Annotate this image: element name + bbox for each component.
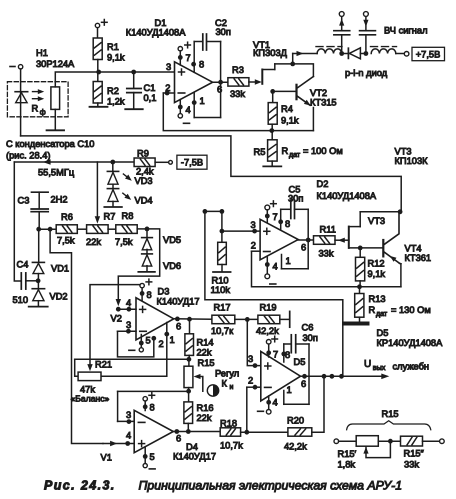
wire balance line R21 to R14 node [75,358,189,360]
svg-text:R4: R4 [281,104,293,114]
wire R7-R8 [108,228,116,230]
inductor L2 with core [371,47,397,54]
svg-text:R14: R14 [197,338,214,348]
label C3 [18,196,30,206]
output wire D1 pin 6 [213,80,228,95]
pin 4 supply terminal D1 [178,100,191,124]
svg-text:42,2k: 42,2k [256,326,279,336]
light arrows of photodiode [33,89,45,101]
svg-text:3: 3 [166,62,171,72]
pin 2 label D1 [165,83,170,93]
svg-text:7: 7 [186,53,191,63]
resistor R19 42,2k [256,303,280,337]
ground under R5 [263,161,281,166]
wire to R7 wiper with arrow [95,162,100,224]
svg-text:30п: 30п [216,27,231,37]
svg-text:+7,5В: +7,5В [416,49,441,59]
pin 4 terminal D2 [265,257,278,284]
svg-text:10,7k: 10,7k [220,441,243,451]
diode VD2 [32,274,44,301]
svg-text:2: 2 [248,376,253,386]
node C1 tap [131,70,136,75]
op-amp D3 К140УД17 [136,298,174,340]
svg-text:7,5k: 7,5k [57,236,75,246]
transistor VT4 КТ361 [383,212,401,287]
svg-text:R8: R8 [122,211,134,221]
node R12/R13 junction [357,281,362,289]
right terminal of R15 detail [423,439,445,444]
svg-text:R18: R18 [220,419,237,429]
svg-text:К140УД17: К140УД17 [157,297,200,307]
transistor VT2 КТ315 [297,77,314,131]
svg-text:22k: 22k [197,348,212,358]
label 2H2 [51,195,68,205]
label 55,5MHz [38,168,75,178]
op-amp D2 К140УД1408А [260,219,298,259]
svg-text:1: 1 [200,96,205,106]
svg-text:VD6: VD6 [163,261,181,271]
svg-text:-7,5В: -7,5В [181,158,203,168]
arrow at VD3 [123,174,131,181]
label C4 [17,260,29,270]
pin 3 label D1 [166,62,171,72]
svg-text:33k: 33k [319,249,334,259]
caption Fig 24.3 [44,479,402,493]
node VD1/VD2/C4 [36,278,41,283]
wire drain up to RF line [292,54,294,64]
svg-text:R: R [32,104,39,114]
resistor R2 1,2k [93,72,125,107]
node VT3 drain / VT4 collector [398,209,403,214]
node diode/L2 junction [364,51,369,56]
svg-text:«Баланс»: «Баланс» [71,394,110,404]
wire D2 pin2 to R12/R13 node [252,251,401,287]
svg-text:R5: R5 [254,147,266,157]
op-amp D5 КР140УД1408А [261,352,301,401]
bar under VD6 [138,266,155,272]
label D4 [173,442,216,462]
label 510 [13,295,29,305]
svg-text:К: К [222,379,228,389]
svg-text:= 100 Ом: = 100 Ом [303,146,343,156]
ground under R10 [213,265,231,273]
svg-text:R17: R17 [214,303,231,313]
pin 5 terminal D4 [143,447,155,469]
label D1 [126,18,186,38]
label D5 at symbol [294,357,306,367]
feedback wire D1 pin2 down and right to R4/R5 node [163,93,313,131]
svg-text:2: 2 [159,339,164,349]
svg-text:R13: R13 [369,294,386,304]
svg-text:К140УД1408А: К140УД1408А [126,28,186,38]
svg-text:VT4: VT4 [405,244,422,254]
label VD4 [135,196,153,206]
node D4 output / R16 [186,429,191,434]
svg-text:10,7к: 10,7к [211,326,234,336]
pin 1 loop D2 [282,240,309,269]
svg-text:4: 4 [273,262,278,272]
pin 8 stub D1 [191,42,204,73]
capacitor C3 2H2 with stub bar [31,192,48,229]
label U out sluzhebn [364,359,429,372]
svg-text:R16: R16 [197,403,214,413]
label R15' 1,8k [338,449,357,470]
svg-text:R1: R1 [107,42,119,52]
wire V2 from R8 node to D3 noninverting input [116,229,160,306]
wire D4 pin3 up to R15 node [117,391,119,421]
svg-text:D5: D5 [294,357,306,367]
node C3/VD1 [36,227,41,232]
svg-text:6: 6 [301,243,306,253]
resistor R14 22k [185,319,214,357]
terminal minus (H1 bias input) [10,65,23,69]
svg-text:2Н2: 2Н2 [51,195,68,205]
wiper of R15 [194,374,203,391]
transistor VT1 КП303Д (JFET) [262,64,292,84]
wire H1 minus terminal down [20,69,22,136]
svg-text:8: 8 [150,403,155,413]
svg-text:1,2k: 1,2k [107,97,125,107]
svg-text:Принципиальная электрическая с: Принципиальная электрическая схема АРУ-1 [139,479,403,493]
label R15 [198,358,215,368]
svg-text:R6: R6 [61,212,73,222]
wire D2 pin 3 [222,229,260,234]
wire D5 pin2 down to R18/R20 node [246,387,248,432]
svg-text:C6: C6 [302,323,314,333]
svg-text:33k: 33k [230,89,245,99]
svg-text:7,5k: 7,5k [115,237,133,247]
svg-text:3: 3 [248,354,253,364]
resistor Rf (plain) [51,87,60,110]
node VT1 drain [290,62,295,67]
pin 2 wire D2 [251,241,260,252]
ground under VD4 [104,201,122,207]
svg-text:вых: вых [373,363,386,372]
svg-text:D2: D2 [317,179,329,189]
wire terminal to R1 [97,28,99,38]
wire R6-R7 [77,228,86,230]
potentiometer R15 (Regul Ki) [184,359,193,387]
label VD1 [51,264,69,274]
resistor R17 10,7k [211,303,235,337]
resistor R1 9,1k [93,38,125,63]
svg-text:R15″: R15″ [404,449,425,459]
inductor L1 with core [316,47,342,54]
wire C5 down to output [307,209,309,240]
svg-text:4: 4 [186,105,191,115]
svg-text:5: 5 [150,452,155,462]
capacitor C1 0,1 [127,72,157,109]
svg-text:U: U [364,359,371,370]
svg-text:VD3: VD3 [135,176,153,186]
capacitor to antenna terminal 2 [360,12,376,54]
svg-text:D1: D1 [155,18,167,28]
svg-text:R3: R3 [232,65,244,75]
svg-text:R2: R2 [107,86,119,96]
arrow at VD4 [123,193,131,200]
pin 3 label D2 [251,220,256,230]
svg-text:510: 510 [13,295,29,305]
svg-text:D3: D3 [158,287,170,297]
AGC feedback wire from D5 output to D2 +input [205,211,343,375]
svg-text:R12: R12 [368,259,385,269]
wiper of R15' to node [363,441,390,457]
resistor R8 7,5k [115,211,137,247]
resistor R16 22k [184,391,214,423]
svg-text:H1: H1 [36,48,48,58]
pin 4 terminal D5 [258,396,278,414]
adjustment symbol (half filled circle) [207,385,218,396]
svg-text:D5: D5 [377,328,389,338]
svg-text:КП303Д: КП303Д [253,48,288,58]
pin 2 stub D3 [151,336,163,349]
wire R20 up to output [312,376,324,432]
svg-text:8: 8 [285,350,290,360]
op-amp D4 К140УД17 [134,410,173,452]
wire C2 down to output node [220,42,222,118]
pin 7 terminal D5 [266,336,278,359]
resistor R20 42,2k [284,416,312,452]
pin 2 wire D1 (inverting input) [163,91,174,96]
wire Rf bottom to ground [54,109,56,129]
svg-text:4: 4 [126,298,131,308]
input wire 55,5MHz with arrow [14,159,134,164]
transistor VT3 КП103К (JFET) [349,212,400,248]
wire R16 to D4 output [187,423,189,431]
svg-text:7: 7 [273,350,278,360]
svg-text:VT3: VT3 [368,216,385,226]
output wire D3 pin6 [174,317,212,332]
wire bus to pin3 and R10 [220,211,225,242]
pin 3 wire D4 [118,410,135,424]
svg-text:V2: V2 [111,314,122,324]
node R4 bottom / R5 top [269,124,274,133]
pin 1 stub D3 [164,332,174,345]
svg-text:VD2: VD2 [50,292,68,302]
label VD5 [163,235,181,245]
label VT1 [253,40,288,58]
node R1/R2 junction [96,70,101,75]
label 47k Balance [71,385,110,404]
pin 8 terminal D3 [140,279,152,300]
svg-text:V1: V1 [101,453,112,463]
svg-text:6: 6 [176,434,181,444]
pin 8 stub D2 [278,209,290,230]
svg-text:0,1: 0,1 [144,93,157,103]
ground under R2 [90,103,108,107]
wire R15 bottom to D4 inverting [118,390,189,392]
svg-text:8: 8 [285,219,290,229]
svg-text:R19: R19 [260,303,277,313]
capacitor C2 30p feedback [194,18,231,50]
capacitor C4 510 [21,273,38,289]
output wire D5 pin6 U out [301,374,390,390]
svg-text:C1: C1 [144,83,156,93]
output wire D2 pin6 [298,238,313,253]
node R15 bottom [186,388,191,394]
pin 3 wire D3 inverting [118,320,137,334]
svg-text:R15′: R15′ [338,449,357,459]
pin 8 terminal D4 [143,393,155,413]
svg-text:VT3: VT3 [395,147,412,157]
label VD6 [163,261,181,271]
label H1 30P124A [36,48,75,69]
potentiometer R21 47k Balance [75,359,101,380]
p-i-n diode [342,48,366,59]
wire R1 to node [97,60,99,73]
label R_f (photo resistor) [32,104,46,117]
label D2 [317,179,377,201]
label VCh signal [384,26,428,36]
ground under Rf [47,129,65,131]
wire VT2 base to node [270,89,296,94]
wire D3 pin3 to pin2 compensation [118,331,154,357]
svg-text:R20: R20 [287,416,304,426]
terminal plus above R1 [95,20,107,28]
resistor R11 33k [314,225,336,259]
label V2 [111,314,122,324]
svg-text:55,5МГц: 55,5МГц [38,168,75,178]
node R14 bottom [187,355,192,361]
resistor R6 7,5k [56,212,77,246]
svg-text:9,1k: 9,1k [107,53,125,63]
wire L2 to +7,5V terminal [396,52,409,57]
ground bar under R13 [344,317,368,323]
svg-text:КТ315: КТ315 [310,98,337,108]
wire Rf top to R1/R2 node [55,72,98,87]
svg-text:ВЧ сигнал: ВЧ сигнал [384,26,428,36]
svg-text:9,1k: 9,1k [281,116,299,126]
svg-text:р-i-n диод: р-i-n диод [345,68,388,78]
svg-text:3: 3 [126,320,131,330]
svg-text:D4: D4 [186,442,198,452]
resistor R7 22k (controlled) [86,212,115,248]
node R18/R20/pin2 [241,430,288,435]
svg-text:R21: R21 [95,360,112,370]
svg-text:33k: 33k [404,460,419,470]
svg-text:КП103К: КП103К [395,156,429,166]
node R20 feedback tap [322,374,327,379]
label VT4 [405,244,432,264]
diode VD1 [32,229,44,273]
wire C3 node to R6 [39,228,57,230]
extra node on output [330,374,335,379]
resistor R18 10,7k [220,419,243,451]
svg-text:30п: 30п [303,333,318,343]
svg-text:7: 7 [273,212,278,222]
wire H1 cathode bus to VT3 drain [21,136,402,212]
svg-text:8: 8 [147,290,152,300]
photodiode VD3 [107,162,118,184]
pin 2 wire D5 [247,376,261,390]
node between R15' and R15'' [378,439,400,444]
svg-text:1: 1 [287,385,292,395]
svg-text:22k: 22k [197,413,212,423]
node R17/R19 junction [235,317,258,322]
ground under C1 [125,108,143,110]
svg-text:1: 1 [286,256,291,266]
pin 7 supply terminal D1 [178,42,191,65]
pin 3 label D5 [248,354,257,368]
capacitor C5 30p [281,185,309,219]
pin 4 wire D3 noninverting [116,298,136,312]
resistor R4 9,1k [268,91,299,125]
node D2 +input bus right [220,209,225,214]
svg-text:2: 2 [251,241,256,251]
node D2 +input bus left [203,209,208,214]
svg-text:R: R [369,305,376,315]
resistor R9 2,4k [134,149,155,177]
svg-text:R15: R15 [382,409,399,419]
label R15'' 33k [404,449,425,470]
resistor R15'' 33k [401,436,423,446]
resistor R3 33k [228,65,249,99]
pin 1 loop D1 [192,92,221,117]
output wire D4 pin6 [173,429,220,443]
svg-text:6: 6 [176,322,181,332]
brace over R15 detail [347,421,431,430]
svg-text:3: 3 [126,410,131,420]
svg-text:1,8k: 1,8k [338,460,356,470]
wire drain node to VT2 collector [293,64,314,77]
label VD2 [50,292,68,302]
svg-text:9,1k: 9,1k [368,269,386,279]
resistor R13 (R dat 130 Ohm) [355,287,431,318]
label V1 [101,453,112,463]
label R21 [95,360,112,370]
svg-text:Рис. 24.3.: Рис. 24.3. [44,479,116,493]
label VT3 at symbol [368,216,385,226]
svg-text:4: 4 [126,431,131,441]
svg-text:42,2k: 42,2k [284,442,307,452]
terminal to -7,5V [155,160,172,164]
svg-text:6: 6 [301,379,306,389]
svg-text:6: 6 [217,85,222,95]
arrow into VT1 gate [249,79,262,84]
svg-text:К140УД1408А: К140УД1408А [317,191,377,201]
svg-text:С конденсатора С10: С конденсатора С10 [6,139,94,149]
svg-text:30Р124А: 30Р124А [36,59,75,69]
svg-text:22k: 22k [86,237,101,247]
capacitor to antenna terminal 1 [334,12,350,54]
diode VD5 [142,229,153,250]
svg-text:C3: C3 [18,196,30,206]
label R15 inset [382,409,399,419]
label VD3 [135,176,153,186]
svg-text:C4: C4 [17,260,29,270]
svg-text:R11: R11 [320,225,336,235]
svg-text:(рис. 28.4): (рис. 28.4) [6,151,50,161]
left terminal of R15 detail [334,439,356,444]
pin 1 loop D5 [284,376,309,404]
pin 7 terminal D2 [265,201,278,222]
resistor R10 110k [211,242,231,295]
svg-text:К140УД17: К140УД17 [173,452,216,462]
wire D3 pin1 down to R21 right [101,323,167,377]
svg-text:служебн: служебн [393,362,430,372]
svg-text:30п: 30п [288,193,303,203]
wire between bus nodes [205,210,222,212]
wire R11 to VT3 gate with arrow [335,238,349,243]
svg-text:= 130 Ом: = 130 Ом [391,305,431,315]
-7,5V supply box [177,155,207,169]
stub bar after R19 [280,311,290,327]
label VT3 КП103К [395,147,429,167]
pin 5 terminal D3 [129,335,151,352]
svg-text:R: R [282,146,289,156]
svg-text:R10: R10 [212,276,229,286]
svg-text:R7: R7 [104,212,116,222]
